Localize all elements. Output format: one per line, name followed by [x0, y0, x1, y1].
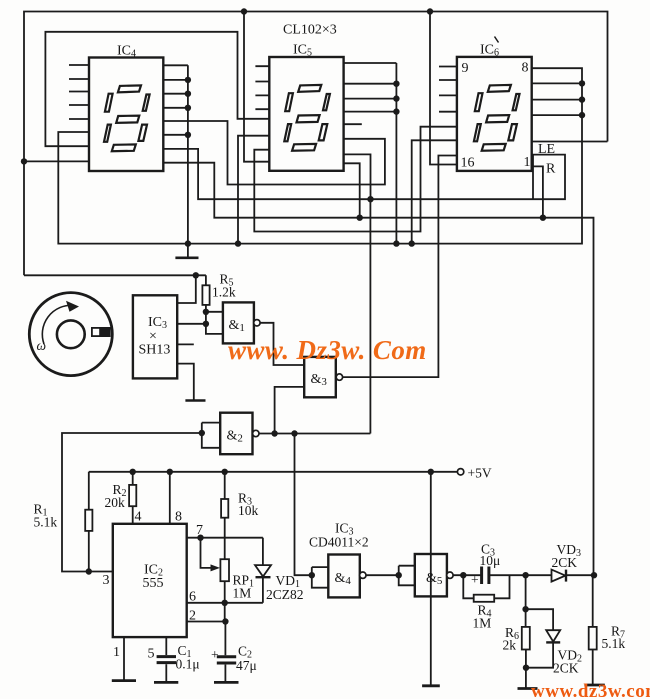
node R6 VD2 bottom	[523, 665, 529, 671]
wire gate 2 output line going right and up to displays	[259, 199, 371, 433]
gate 1 box	[223, 302, 254, 343]
wire C3 to VD3 node	[489, 574, 526, 576]
svg-text:www.dz3w.com: www.dz3w.com	[531, 681, 650, 699]
wire IC3 pin 2 to junction column	[177, 323, 206, 325]
wire gate 1 output to gate 3 input a	[260, 323, 304, 365]
capacitor C3	[471, 567, 489, 588]
display IC5 box	[269, 57, 343, 171]
node on top rail feeding IC6 pin 16	[427, 8, 433, 14]
svg-text:8: 8	[522, 61, 529, 76]
wire outer top rail from left column to top-right corner down to LE line	[24, 12, 608, 276]
node rail gate 5 column	[428, 469, 434, 475]
svg-text:16: 16	[461, 156, 475, 171]
node at gate 2 inputs	[199, 430, 205, 436]
wire inner rectangle from IC4 left pin over the top to IC5 left pin	[45, 32, 269, 146]
wire gate 2 output to gate 3 input b	[275, 387, 305, 434]
ground of 555 pin 1	[112, 679, 136, 682]
svg-text:2CK: 2CK	[552, 555, 578, 570]
wire IC6 pin down to main bus	[412, 140, 457, 243]
IC3 SH13 box	[133, 295, 177, 378]
ground below gate 5	[422, 684, 440, 687]
svg-text:5.1k: 5.1k	[602, 636, 626, 651]
svg-text:555: 555	[143, 576, 164, 591]
IC5 short stub pin	[344, 123, 362, 125]
node pin 2 C2	[222, 618, 228, 624]
wire IC3 pin 1 up to rail	[177, 275, 195, 303]
resistor R7	[589, 575, 597, 684]
wire node down to R6 VD2	[525, 575, 527, 627]
IC5 right pin wires to bus	[344, 84, 397, 112]
capacitor C1	[157, 657, 176, 681]
IC2 555 box	[113, 524, 187, 637]
IC3 pin 3 stub	[177, 343, 193, 345]
svg-text:www. Dz3w. Com: www. Dz3w. Com	[228, 335, 427, 365]
wire IC4 pin to IC5 pin via y=184.5	[163, 121, 385, 185]
wire IC6 pin down to gate 3 output	[342, 156, 457, 378]
diode VD3	[526, 570, 594, 582]
svg-text:0.1μ: 0.1μ	[176, 657, 200, 672]
ground of R6	[518, 687, 538, 690]
wire gate 4 output to gate 5 inputs	[366, 574, 399, 576]
+5V supply rail	[89, 471, 457, 473]
node IC3 pin 2 junction	[203, 321, 209, 327]
wire 555 pin 8 from rail	[169, 472, 171, 524]
wire junction column to gate 1 input b	[206, 312, 223, 334]
potentiometer RP1	[220, 559, 229, 603]
svg-text:47μ: 47μ	[236, 658, 257, 673]
svg-text:R: R	[546, 162, 556, 177]
svg-text:2CK: 2CK	[553, 661, 579, 676]
gate 5 input tie bracket	[399, 566, 415, 586]
IC4 left stub pins	[69, 65, 89, 119]
node branch down to gate 4	[291, 430, 297, 436]
wire IC5 left pin down to main bus	[238, 136, 269, 244]
svg-text:10μ: 10μ	[480, 553, 501, 568]
node bus meets main line with ground	[185, 240, 191, 246]
seven-segment digit of IC6	[474, 85, 520, 151]
node VD3 anode	[522, 572, 528, 578]
wire top rail node down to IC5 bottom-left pin	[244, 12, 269, 162]
svg-text:1.2k: 1.2k	[212, 285, 236, 300]
wire main bottom bus from IC4 tap along y=243.6 up the IC6 right bus to pin 8	[58, 68, 582, 243]
node rail R3	[222, 469, 228, 475]
svg-text:4: 4	[135, 510, 142, 525]
wire IC5 left pin along y=231.5 to IC6 left pin	[254, 127, 457, 232]
node rail pin 8	[167, 469, 173, 475]
ground of R7	[584, 684, 604, 687]
display IC6 box	[457, 57, 532, 171]
node pin 6 RP1	[222, 600, 228, 606]
gate 2 output bubble	[253, 430, 259, 436]
wire IC5 pin down to y=217.7 line	[344, 163, 360, 217]
IC5 right-side pin bus	[344, 63, 397, 244]
svg-text:CL102×3: CL102×3	[283, 23, 337, 38]
node rail R2	[130, 469, 136, 475]
svg-text:2k: 2k	[503, 638, 517, 653]
wire gate 5 output to C3	[453, 574, 481, 576]
wire IC6 pin 1 down to y=217.7 line	[532, 166, 543, 217]
resistor R1	[85, 472, 92, 572]
gate 3 output bubble	[336, 374, 342, 380]
IC4 right pin wires to bus	[163, 80, 188, 135]
ground below main bus	[175, 244, 198, 258]
gate 4 output bubble	[360, 572, 366, 578]
svg-text:1: 1	[113, 645, 120, 660]
resistor R4 loop	[463, 575, 509, 602]
wire 555 pin 1 to ground	[123, 637, 125, 680]
node R1 joins pin 3 wire	[86, 568, 92, 574]
rotating disc sensor	[29, 293, 112, 376]
seven-segment digit of IC5	[284, 85, 330, 151]
node R5 bottom to gate 1 input a	[203, 309, 209, 315]
svg-text:2CZ82: 2CZ82	[266, 587, 304, 602]
svg-text:8: 8	[175, 510, 182, 525]
svg-text:ω: ω	[37, 338, 47, 353]
svg-text:5: 5	[148, 647, 155, 662]
wire IC5 pin down to y=199.2 line	[344, 154, 371, 199]
diode VD2	[526, 630, 560, 668]
gate 1 output bubble	[254, 320, 260, 326]
wire branch down to gate 4 inputs	[295, 434, 312, 576]
wire IC3 pin 4 to ground	[177, 364, 193, 400]
wire pin6 node down to C2	[224, 603, 227, 656]
wire top rail node down to IC6 pin 16	[430, 12, 457, 165]
svg-text:3: 3	[103, 573, 110, 588]
gate 3 box	[304, 357, 336, 397]
svg-text:LE: LE	[538, 142, 555, 157]
node branch to gate 3 input b	[271, 430, 277, 436]
resistor R2	[129, 472, 136, 524]
wire rail y=274 from left column to R5 top	[24, 274, 206, 276]
node at gate 5 inputs	[396, 572, 402, 578]
wire 555 pin 6	[187, 602, 263, 604]
svg-text:+: +	[471, 572, 479, 587]
svg-text:SH13: SH13	[139, 343, 171, 358]
IC6 right pin wires to bus	[532, 83, 582, 115]
gate 5 box	[415, 554, 447, 596]
small tick mark above IC6	[495, 37, 499, 43]
gate 4 input tie bracket	[312, 567, 329, 588]
node R6 VD2 branch	[522, 606, 528, 612]
node C3 input	[460, 572, 466, 578]
svg-text:10k: 10k	[238, 503, 259, 518]
svg-text:+: +	[211, 647, 219, 662]
wire IC4 pin along y=217.7 to far right dropping to VD3 node	[163, 163, 593, 576]
svg-text:20k: 20k	[105, 495, 126, 510]
gate 4 box	[328, 555, 360, 598]
resistor R3	[221, 472, 228, 559]
wire 555 pin 5 to C1	[165, 637, 167, 655]
svg-text:5.1k: 5.1k	[34, 515, 58, 530]
svg-text:CD4011×2: CD4011×2	[309, 535, 369, 550]
node on left column at IC4 wire	[21, 158, 27, 164]
wire 555 pin 2	[187, 621, 226, 623]
+5V open terminal	[457, 469, 463, 475]
wire wiper arm with arrow into RP1	[201, 538, 221, 572]
node pin 7 wiper branch	[197, 535, 203, 541]
node rail to IC3 pin 1	[193, 272, 199, 278]
ground of C2	[214, 681, 239, 684]
diode VD1	[255, 538, 271, 603]
node at gate 4 inputs	[309, 572, 315, 578]
svg-text:1: 1	[524, 155, 531, 170]
resistor R5	[202, 275, 209, 312]
IC5 left stub pins	[255, 66, 269, 109]
wire 555 pin 7 to VD1 top	[187, 537, 263, 539]
svg-text:+5V: +5V	[468, 466, 492, 481]
gate 2 box	[220, 413, 252, 455]
IC6 left stub pins	[439, 67, 457, 112]
capacitor C2	[211, 647, 236, 681]
wire +5V column through gate 5 down to ground	[430, 472, 432, 685]
wire from left column to IC4 lower-left pin	[24, 160, 89, 162]
resistor R6	[522, 627, 530, 688]
wire branch to VD2 top	[526, 609, 554, 630]
IC4 right-side pin bus	[163, 65, 188, 243]
ground of IC3	[185, 399, 205, 402]
wire long input from 555 pin 3 to gate 2	[62, 433, 202, 572]
wire IC4 pin along y=199.2 forming R box bottom	[163, 149, 565, 199]
node feedback column joins VD3 output	[591, 572, 597, 578]
ground of C1	[154, 681, 178, 684]
gate 5 output bubble	[447, 572, 453, 578]
seven-segment digit of IC4	[104, 85, 150, 151]
node on top rail feeding IC5 pin	[241, 8, 247, 14]
wire LE line from IC6 right edge to right vertical	[532, 141, 608, 143]
svg-text:1M: 1M	[233, 586, 252, 601]
wire gate 1 input a	[206, 311, 223, 313]
svg-text:9: 9	[462, 61, 469, 76]
display IC4 box	[89, 58, 163, 172]
gate 2 input tie bracket	[202, 423, 220, 448]
svg-text:1M: 1M	[473, 616, 492, 631]
